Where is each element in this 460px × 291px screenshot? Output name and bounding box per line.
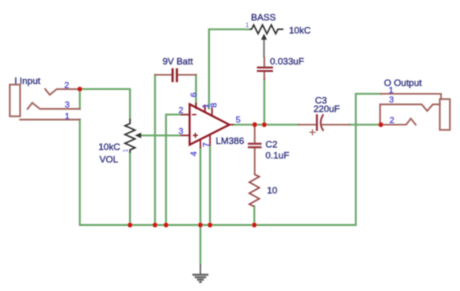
svg-text:10: 10 [267,186,277,196]
svg-text:220uF: 220uF [314,104,341,114]
svg-text:C2: C2 [266,140,278,150]
svg-text:9V Batt: 9V Batt [163,56,194,66]
svg-text:1: 1 [65,111,70,121]
svg-text:VOL: VOL [100,154,119,164]
svg-text:0.033uF: 0.033uF [270,56,304,66]
svg-text:10kC: 10kC [289,26,311,36]
svg-text:8: 8 [209,103,219,108]
svg-text:3: 3 [389,95,394,105]
svg-text:3: 3 [65,100,70,110]
svg-text:2: 2 [390,115,395,125]
svg-text:3: 3 [179,126,184,136]
svg-text:1: 1 [389,85,394,95]
svg-text:4: 4 [189,151,199,156]
svg-text:0.1uF: 0.1uF [266,151,290,161]
svg-text:LM386: LM386 [216,136,244,146]
svg-text:I Input: I Input [15,76,41,86]
svg-text:2: 2 [64,80,69,90]
svg-text:2: 2 [179,105,184,115]
svg-text:10kC: 10kC [99,142,121,152]
svg-text:5: 5 [236,114,241,124]
svg-text:6: 6 [189,92,199,97]
svg-text:7: 7 [201,142,211,147]
svg-text:BASS: BASS [251,13,276,23]
